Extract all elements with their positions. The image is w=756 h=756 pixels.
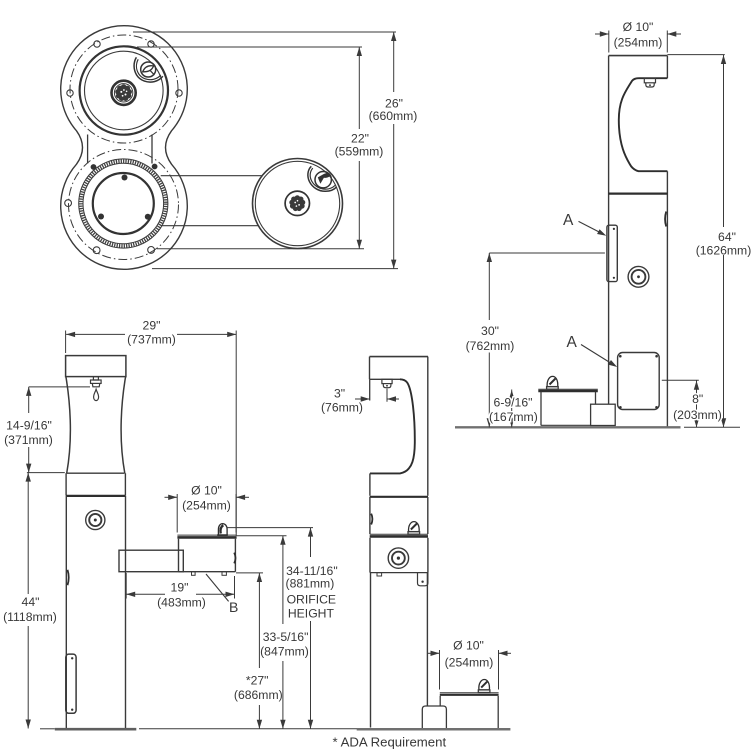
recess curve (side) bbox=[370, 379, 415, 473]
dimension 3" bbox=[386, 389, 388, 402]
basin drain tabs bbox=[192, 572, 196, 576]
column left edge bbox=[65, 496, 67, 728]
dimension 8" bbox=[662, 379, 699, 381]
plan dim extension line top (26") bbox=[133, 31, 396, 33]
svg-text:HEIGHT: HEIGHT bbox=[288, 606, 335, 620]
svg-text:14-9/16": 14-9/16" bbox=[6, 419, 52, 433]
orifice height extension line bbox=[228, 527, 314, 529]
svg-text:8": 8" bbox=[692, 392, 703, 406]
column right edge upper bbox=[666, 56, 668, 79]
svg-text:44": 44" bbox=[22, 595, 40, 609]
dimension 44" bbox=[27, 473, 29, 594]
basin bottom bracket right bbox=[418, 573, 428, 586]
upper basin bolt top-right bbox=[148, 41, 154, 47]
lower flange gasket hatched ring bbox=[79, 159, 168, 248]
svg-text:30": 30" bbox=[481, 324, 499, 338]
cap top bbox=[609, 55, 668, 57]
side basin bubbler orifice detail bbox=[318, 173, 331, 184]
lower flange bolt bottom-left bbox=[93, 247, 100, 254]
svg-text:(483mm): (483mm) bbox=[157, 596, 206, 610]
plan dim extension line (22" bottom) bbox=[157, 248, 364, 250]
bottle filler spout (side) bbox=[644, 78, 655, 87]
side basin drain ring bbox=[285, 191, 309, 215]
dimension 22" vertical line bbox=[358, 47, 360, 129]
base box (side) bbox=[422, 706, 446, 729]
cap (side) bbox=[370, 356, 429, 358]
section joint line (side) bbox=[370, 496, 428, 498]
remote pet basin body bbox=[439, 696, 441, 706]
lower flange bolt bottom-right bbox=[148, 247, 155, 254]
side basin bubbler guard bbox=[308, 166, 337, 191]
dimension 29" bbox=[65, 331, 67, 354]
dimension Phi 10 (remote basin) bbox=[439, 650, 441, 690]
svg-text:6-9/16": 6-9/16" bbox=[494, 396, 533, 410]
dimension 14-9/16" bbox=[29, 386, 90, 388]
pedestal base box (side) bbox=[591, 404, 616, 425]
support arm bracket bbox=[119, 550, 183, 572]
upper basin bubbler guard bbox=[134, 57, 163, 82]
svg-text:19": 19" bbox=[171, 581, 189, 595]
base plate bbox=[55, 728, 137, 731]
upper basin bolt top-left bbox=[94, 41, 100, 47]
svg-text:64": 64" bbox=[718, 230, 736, 244]
lower access panel bbox=[618, 353, 660, 410]
svg-text:(1118mm): (1118mm) bbox=[3, 610, 57, 624]
svg-text:(254mm): (254mm) bbox=[445, 655, 494, 669]
spout (side) bbox=[382, 379, 392, 387]
dimension text 26" bbox=[369, 97, 418, 124]
neck connector line right bbox=[151, 135, 153, 164]
left edge segment below recess top bbox=[369, 379, 371, 400]
side drain sliver on left edge bbox=[68, 570, 69, 585]
svg-text:(660mm): (660mm) bbox=[369, 109, 418, 123]
hourglass shell left side bbox=[66, 377, 70, 474]
dimension 26" vertical line bbox=[393, 32, 395, 92]
dimension 64" bbox=[667, 54, 724, 56]
rim height extension line bbox=[237, 535, 287, 537]
svg-text:ORIFICE: ORIFICE bbox=[287, 592, 336, 606]
upper basin bolt circle (dash-dot) bbox=[70, 35, 178, 143]
upper basin bolt left bbox=[67, 90, 73, 96]
svg-text:(762mm): (762mm) bbox=[466, 339, 515, 353]
hourglass bottom line bbox=[66, 472, 124, 474]
side basin inner circle bbox=[255, 161, 339, 245]
lower flange bolt left bbox=[65, 200, 72, 207]
upper basin bubbler orifice lens bbox=[143, 66, 154, 72]
upper basin drain ring outer bbox=[112, 81, 136, 105]
svg-text:(686mm): (686mm) bbox=[234, 688, 283, 702]
svg-text:33-5/16": 33-5/16" bbox=[263, 630, 309, 644]
column right edge (side) bbox=[427, 357, 429, 496]
svg-text:(559mm): (559mm) bbox=[335, 145, 384, 159]
column right edge bbox=[125, 496, 127, 728]
hourglass shell right side bbox=[121, 377, 126, 474]
plan dim extension line (22" top) bbox=[137, 46, 362, 48]
svg-text:(1626mm): (1626mm) bbox=[696, 244, 752, 258]
svg-text:A: A bbox=[567, 334, 578, 351]
left edge to basin bbox=[369, 497, 371, 534]
label B leader bbox=[206, 574, 229, 601]
basin push button (side view face) bbox=[388, 548, 408, 568]
mid basin body (front) bbox=[179, 539, 236, 572]
svg-text:B: B bbox=[229, 599, 238, 615]
lower flange screw top bbox=[122, 175, 128, 181]
right edge to basin bbox=[427, 497, 429, 534]
dimension Phi 10 (top) bbox=[608, 31, 610, 53]
column left edge bbox=[608, 56, 610, 405]
push button (front) bbox=[86, 510, 105, 529]
upper basin bubbler head bbox=[141, 62, 156, 77]
lower flange bolt circle (dash-dot) bbox=[69, 150, 179, 260]
section joint line bbox=[609, 193, 668, 195]
mid basin rim (front) bbox=[177, 534, 236, 536]
recess top line bbox=[619, 78, 668, 171]
svg-text:Ø 10": Ø 10" bbox=[623, 20, 654, 34]
mid basin body (side) bbox=[369, 538, 371, 573]
arm tangent line top bbox=[161, 175, 262, 177]
lower flange screw bottom-right bbox=[145, 214, 151, 220]
neck connector line left bbox=[87, 135, 89, 164]
bubbler (front) bbox=[217, 524, 228, 536]
svg-text:(371mm): (371mm) bbox=[4, 433, 53, 447]
basin underside extension line bbox=[236, 572, 263, 574]
svg-text:(167mm): (167mm) bbox=[489, 410, 538, 424]
svg-text:(881mm): (881mm) bbox=[286, 577, 335, 591]
lower flange dark bolt upper-right bbox=[152, 164, 158, 170]
remote pet basin rim bbox=[440, 692, 499, 694]
dimension text 22" bbox=[335, 132, 384, 159]
leader line A lower bbox=[581, 345, 615, 366]
30in extension line bbox=[489, 252, 605, 254]
leader line A upper bbox=[579, 221, 604, 234]
pet basin body (side) bbox=[541, 392, 596, 426]
lower flange dark bolt upper-left bbox=[91, 164, 97, 170]
upper basin drain ring inner bbox=[114, 84, 132, 102]
dimension 6-9/16" bbox=[511, 390, 513, 428]
svg-text:*27": *27" bbox=[246, 674, 269, 688]
upper basin rim inner bbox=[85, 51, 164, 130]
dimension Phi 10 (mid basin) bbox=[176, 494, 178, 533]
basin side button sliver bbox=[234, 553, 235, 564]
push button (side view) bbox=[628, 266, 649, 287]
svg-text:(203mm): (203mm) bbox=[673, 408, 722, 422]
upper basin drain rosette bbox=[115, 84, 132, 101]
basin bottom tab left bbox=[377, 573, 382, 576]
pet bubbler (side) bbox=[547, 376, 559, 389]
svg-text:(737mm): (737mm) bbox=[127, 333, 176, 347]
lower flange inner circle bbox=[93, 173, 154, 234]
side basin outer circle bbox=[253, 159, 343, 249]
outer peanut outline of pedestal flange bbox=[61, 26, 188, 270]
svg-text:(76mm): (76mm) bbox=[321, 401, 363, 415]
upper basin rim outer bbox=[80, 46, 168, 134]
pet basin rim (side) bbox=[538, 388, 598, 390]
bubbler (side) bbox=[408, 522, 420, 535]
svg-text:Ø 10": Ø 10" bbox=[191, 483, 222, 497]
upper access panel bbox=[607, 225, 617, 281]
mid basin rim (side) bbox=[370, 533, 428, 535]
dimension 19" bbox=[125, 573, 127, 599]
lower flange screw bottom-left bbox=[98, 214, 104, 220]
svg-text:* ADA Requirement: * ADA Requirement bbox=[333, 735, 447, 750]
spout (front) with droplet bbox=[91, 377, 102, 401]
dimension *27" bbox=[258, 573, 260, 668]
side basin drain rosette bbox=[289, 195, 305, 211]
ground line (view C) bbox=[40, 728, 55, 730]
ground line (view D) bbox=[357, 728, 511, 731]
ground line (view B) bbox=[455, 426, 681, 428]
column right edge lower bbox=[666, 171, 668, 427]
side button profile sliver on right edge bbox=[665, 212, 666, 227]
cap (front) bbox=[66, 356, 126, 377]
svg-text:(254mm): (254mm) bbox=[614, 36, 663, 50]
side basin bubbler head bbox=[315, 172, 331, 188]
svg-text:(254mm): (254mm) bbox=[182, 499, 231, 513]
svg-text:(847mm): (847mm) bbox=[260, 645, 309, 659]
button sliver on left edge bbox=[371, 514, 372, 525]
upper basin bolt right bbox=[176, 90, 182, 96]
dimension 34-11/16" orifice height bbox=[310, 528, 312, 557]
arm tangent line bottom bbox=[161, 225, 259, 227]
left edge below recess bbox=[369, 473, 371, 495]
dimension 33-5/16" bbox=[282, 536, 284, 624]
svg-text:Ø 10": Ø 10" bbox=[453, 638, 484, 652]
remote pet bubbler bbox=[478, 680, 490, 693]
lower access panel (front) bbox=[66, 654, 76, 713]
svg-text:29": 29" bbox=[143, 319, 161, 333]
dimension 30" bbox=[488, 253, 490, 320]
plan dim extension line bottom (26") bbox=[152, 268, 398, 270]
svg-text:22": 22" bbox=[351, 132, 369, 146]
svg-text:3": 3" bbox=[334, 387, 345, 401]
collar band bbox=[65, 473, 67, 496]
column below basin (side) bbox=[370, 573, 372, 728]
svg-text:A: A bbox=[563, 212, 574, 229]
